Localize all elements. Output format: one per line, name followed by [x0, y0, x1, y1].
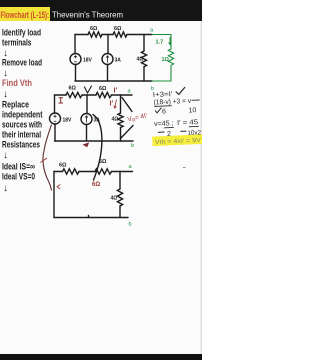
svg-text:6Ω: 6Ω [92, 182, 100, 188]
svg-text:4Ω: 4Ω [137, 57, 144, 63]
resistor R9 4ohm vertical [117, 189, 122, 206]
svg-text:Ideal VS=0: Ideal VS=0 [2, 172, 35, 183]
resistor R5 6ohm [96, 92, 112, 97]
svg-text:1Ω: 1Ω [162, 57, 170, 63]
wire bottom [75, 80, 152, 82]
current source I1 circle [102, 54, 113, 65]
red arrowhead at left branch [57, 185, 60, 190]
svg-text:6Ω: 6Ω [114, 26, 122, 32]
I1 arrow up [106, 56, 109, 63]
wire top left [75, 34, 88, 36]
V2 minus sign [54, 120, 56, 122]
junction tick bottom [88, 216, 90, 218]
fraction bar under 45 [164, 126, 173, 128]
wire green top [152, 34, 171, 36]
resistor RL 1ohm green [168, 49, 173, 65]
svg-text:6Ω: 6Ω [90, 26, 98, 32]
load current arrow [169, 38, 171, 45]
stray mark [183, 167, 186, 169]
svg-text:6Ω: 6Ω [59, 163, 67, 169]
red tick on curve [41, 158, 48, 163]
svg-text:3A: 3A [94, 118, 101, 124]
wire left branch lower [75, 65, 77, 82]
V2 plus sign [54, 115, 88, 123]
title highlight [0, 7, 50, 21]
voltage source V1 circle [70, 54, 81, 65]
red curve from flowchart to circuit 3 [43, 125, 52, 191]
svg-text:↓: ↓ [3, 89, 8, 100]
svg-text:↓: ↓ [3, 150, 8, 161]
svg-text:↓: ↓ [3, 183, 8, 194]
V1 minus sign [74, 61, 76, 63]
wire top left [54, 171, 63, 173]
checkmark 2 small [155, 108, 162, 113]
bottom black bar [0, 354, 202, 360]
wire right branch upper [143, 35, 145, 52]
green load branch circuit 1 [152, 35, 174, 82]
top title bar [0, 0, 202, 21]
wire top right [127, 34, 152, 36]
svg-text:18V: 18V [63, 118, 73, 124]
resistor R6 4ohm vertical [118, 113, 123, 128]
resistor R3 4ohm vertical [141, 51, 146, 67]
red arrowhead under 3A source [83, 142, 90, 147]
right edge line [201, 21, 202, 354]
svg-text:6Ω: 6Ω [69, 86, 77, 92]
svg-text:10: 10 [188, 107, 196, 114]
svg-text:Thevenin's Theorem: Thevenin's Theorem [52, 10, 123, 20]
wire right branch lower [119, 206, 121, 218]
wire right branch upper [120, 95, 122, 113]
svg-text:v=45 ;: v=45 ; [154, 120, 174, 128]
brace stroke upper toward Vr label [122, 98, 132, 112]
voltage source V2 circle [50, 113, 61, 124]
svg-text:b: b [129, 222, 132, 228]
svg-text:Remove load: Remove load [2, 58, 42, 69]
svg-text:I′: I′ [114, 88, 118, 95]
wire top mid [79, 171, 95, 173]
wire top right [112, 171, 133, 173]
wire right branch upper [119, 172, 121, 190]
wire mid branch lower [107, 65, 109, 82]
svg-text:Flowchart (L-15):: Flowchart (L-15): [1, 10, 50, 20]
fraction bar under second 45 [189, 125, 199, 127]
resistor R4 6ohm [66, 92, 82, 97]
svg-text:1.7: 1.7 [156, 40, 164, 46]
wire right branch lower [120, 128, 122, 142]
wire top mid [102, 34, 113, 36]
wire left branch lower [54, 124, 56, 141]
svg-text:4Ω: 4Ω [111, 196, 118, 202]
svg-text:6Ω: 6Ω [99, 86, 107, 92]
red arrow I' down [114, 100, 117, 109]
dash right [180, 130, 186, 132]
wire top left [55, 94, 67, 96]
wire top right [112, 94, 133, 96]
current source I2 circle [81, 114, 92, 125]
svg-text:3A: 3A [115, 58, 122, 64]
wire left branch upper [74, 35, 76, 54]
wire mid branch lower [86, 125, 88, 142]
I2 arrow up [85, 116, 88, 123]
result highlight [152, 134, 203, 146]
wire top mid [82, 94, 96, 96]
curved arrow from 3A source down to circuit 3 [93, 115, 102, 181]
resistor R1 6ohm [88, 32, 102, 37]
svg-text:Resistances: Resistances [2, 140, 40, 151]
resistor R7 6ohm [63, 169, 79, 174]
resistor R2 6ohm [113, 32, 127, 37]
wire mid branch upper [86, 95, 88, 114]
wire left branch [53, 172, 55, 218]
wire green bottom [152, 80, 171, 82]
checkmark 1 [176, 87, 186, 94]
svg-text:terminals: terminals [2, 38, 32, 49]
svg-text:6Ω: 6Ω [99, 159, 107, 165]
wire bottom [54, 217, 128, 219]
fraction bar 2 [192, 99, 200, 101]
wire green right upper [170, 35, 172, 50]
svg-text:18V: 18V [83, 58, 93, 64]
wire green right lower [170, 66, 172, 81]
label node V [85, 86, 92, 93]
wire mid branch upper [107, 35, 109, 54]
svg-text:Find Vth: Find Vth [2, 78, 32, 89]
svg-text:4Ω: 4Ω [112, 117, 119, 123]
brace stroke lower toward Vr label [121, 126, 134, 139]
current label I red [59, 98, 64, 103]
wire right branch lower [143, 67, 145, 81]
svg-text:6: 6 [162, 108, 166, 115]
svg-text:I′: I′ [110, 101, 114, 108]
page background [0, 0, 202, 360]
fraction bar 1 [154, 105, 171, 108]
svg-text:b: b [131, 143, 134, 149]
wire left branch upper [54, 95, 56, 113]
V1 plus sign [74, 55, 109, 62]
wire bottom [55, 140, 134, 142]
dash left [158, 131, 164, 133]
resistor R8 6ohm [95, 169, 111, 174]
svg-text:I′ = 45: I′ = 45 [177, 119, 198, 127]
